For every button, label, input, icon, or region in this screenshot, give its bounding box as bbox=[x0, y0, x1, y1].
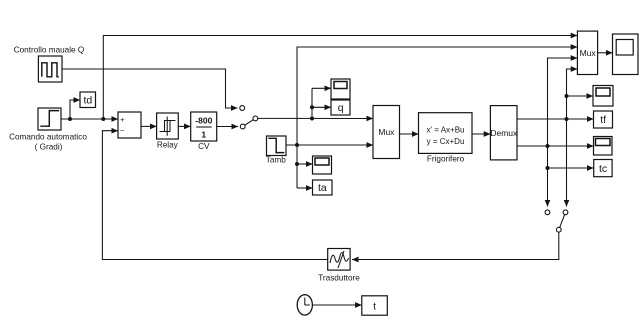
svg-text:q: q bbox=[338, 102, 344, 114]
svg-text:Frigorifero: Frigorifero bbox=[427, 154, 465, 163]
svg-text:( Gradi): ( Gradi) bbox=[35, 142, 63, 151]
svg-text:-800: -800 bbox=[195, 116, 212, 126]
svg-text:t: t bbox=[373, 300, 376, 312]
svg-text:y = Cx+Du: y = Cx+Du bbox=[427, 137, 465, 146]
svg-text:Relay: Relay bbox=[157, 141, 179, 150]
svg-text:CV: CV bbox=[198, 142, 210, 151]
svg-text:Mux: Mux bbox=[378, 127, 395, 137]
svg-text:tc: tc bbox=[599, 163, 607, 175]
svg-text:x' = Ax+Bu: x' = Ax+Bu bbox=[427, 125, 465, 134]
svg-text:Comando automatico: Comando automatico bbox=[9, 133, 87, 142]
svg-text:−: − bbox=[120, 126, 125, 135]
svg-text:tf: tf bbox=[600, 114, 606, 126]
svg-text:Mux: Mux bbox=[580, 48, 597, 58]
svg-text:Trasduttore: Trasduttore bbox=[318, 273, 360, 282]
svg-text:Tamb: Tamb bbox=[266, 156, 286, 165]
svg-text:Demux: Demux bbox=[490, 128, 518, 138]
svg-text:td: td bbox=[84, 94, 93, 106]
svg-text:+: + bbox=[120, 115, 125, 124]
svg-text:ta: ta bbox=[318, 182, 327, 194]
svg-text:1: 1 bbox=[201, 130, 206, 140]
svg-text:Controllo mauale Q: Controllo mauale Q bbox=[14, 46, 85, 55]
